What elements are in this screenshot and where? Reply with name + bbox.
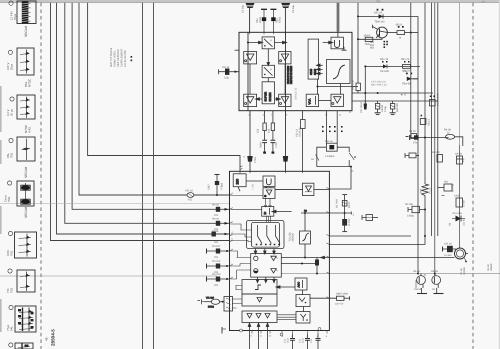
svg-text:VCA: VCA — [308, 99, 312, 105]
svg-text:R51: R51 — [444, 181, 449, 184]
block lowpass — [242, 294, 277, 306]
svg-text:ID: ID — [263, 212, 267, 215]
block deemphasis — [242, 280, 277, 295]
svg-text:FF5bB: FF5bB — [221, 182, 224, 190]
dashed board boundary left — [40, 3, 42, 349]
wire x365 drop — [364, 66, 366, 103]
svg-text:(+1.2): (+1.2) — [429, 187, 432, 194]
svg-text:8: 8 — [326, 335, 328, 338]
wire column x440 — [437, 3, 439, 236]
svg-text:16: 16 — [339, 114, 342, 117]
resistor R9b row155 — [405, 153, 419, 158]
wire pin6 to switch — [231, 241, 252, 242]
capacitor C520 + ground — [375, 101, 381, 115]
resistor R5124 — [397, 26, 405, 35]
diode D52 — [406, 73, 418, 81]
op-amp U2 second IC outline — [230, 171, 330, 330]
node j4 — [357, 15, 359, 17]
wire arrow to switch1 left — [248, 41, 263, 44]
node j1 — [247, 42, 249, 44]
wire switch1 to switch2 — [267, 49, 270, 66]
wire vca2 to switches — [266, 216, 270, 222]
svg-text:68k/+19B 2.2Ω: 68k/+19B 2.2Ω — [371, 84, 387, 87]
wire preset to lowpass — [237, 299, 243, 304]
svg-text:5539D5: 5539D5 — [292, 232, 295, 241]
svg-text:09 m3: 09 m3 — [212, 203, 220, 206]
amplifier A1 — [244, 52, 257, 64]
svg-text:Y51 R51B: Y51 R51B — [360, 102, 363, 113]
svg-text:B51: B51 — [370, 41, 375, 44]
node j12 — [301, 263, 303, 265]
amplifier A2 — [279, 52, 291, 64]
amplifier A5 — [331, 94, 343, 106]
crystal Q51 — [326, 143, 337, 151]
svg-text:5: 5 — [232, 263, 234, 266]
svg-text:560Ω: 560Ω — [208, 306, 214, 309]
wire gm5 bottom to VCA2 — [317, 79, 319, 94]
resistor R51 470k vertical — [356, 83, 360, 93]
svg-text:20 µs: 20 µs — [9, 109, 13, 116]
block VCA — [306, 94, 318, 106]
svg-text:B52: B52 — [370, 44, 375, 47]
wire column x419 — [417, 79, 419, 274]
svg-text:D05B9: D05B9 — [490, 263, 493, 271]
matrix block SUPER KOMBI — [262, 82, 274, 104]
svg-text:SECAM: SECAM — [24, 206, 28, 218]
svg-text:9: 9 — [251, 335, 253, 338]
wire column x434.8 — [434, 3, 436, 276]
svg-text:7: 7 — [232, 192, 234, 195]
svg-text:41-: 41- — [45, 336, 49, 341]
svg-text:ST P3B: ST P3B — [452, 183, 455, 192]
node j9 — [377, 92, 379, 94]
wire into U — [323, 41, 333, 44]
dots cluster q1 — [384, 41, 388, 48]
capacitor DR36 chain — [342, 195, 347, 232]
svg-text:20µs: 20µs — [9, 63, 13, 70]
svg-text:D51-4B5: D51-4B5 — [453, 212, 463, 215]
svg-text:47n: 47n — [413, 142, 418, 145]
wire deemph stub left — [236, 285, 242, 290]
svg-text:C51 46: C51 46 — [444, 243, 452, 246]
wire long audio out right — [281, 273, 500, 275]
svg-text:17: 17 — [325, 114, 328, 117]
wire pin2 to vca2 — [231, 208, 262, 210]
svg-text:◄ -5: ◄ -5 — [400, 93, 406, 97]
connector 7 VHS — [8, 231, 36, 258]
svg-text:4: 4 — [232, 231, 234, 234]
node j6 — [357, 38, 359, 40]
svg-text:47k/1: 47k/1 — [259, 16, 262, 23]
wire triple link — [277, 315, 296, 320]
resistor R912 zigzag — [422, 184, 429, 196]
wire faint mid left — [0, 203, 230, 205]
block 200 — [233, 174, 246, 191]
svg-text:4.43: 4.43 — [27, 127, 31, 133]
capacitor C501 (electrolytic top left) — [246, 3, 255, 32]
svg-text:L.-45!: L.-45! — [252, 184, 255, 190]
wire column x460 gray — [459, 3, 461, 145]
svg-text:C9-6B: C9-6B — [455, 153, 462, 156]
svg-text:M-PD2: M-PD2 — [348, 218, 351, 226]
wire outputs below (arrows up) — [248, 323, 251, 349]
block output triple — [242, 311, 277, 323]
label box2 pin numbers — [232, 192, 234, 279]
svg-text:75Ω: 75Ω — [9, 251, 13, 256]
capacitor C913a — [408, 206, 425, 212]
svg-text:451 470k: 451 470k — [352, 79, 355, 90]
svg-text:Y51: Y51 — [188, 199, 193, 202]
switch bank inner — [252, 222, 280, 247]
switch bank outer — [247, 221, 285, 249]
svg-text:1B: 1B — [432, 288, 435, 291]
pin ticks ic1 top — [250, 32, 286, 34]
capacitor C502 (electrolytic top right) — [281, 3, 290, 32]
wire mute left stubs — [237, 258, 251, 271]
wire mute outputs — [256, 277, 259, 283]
svg-text:R9 450: R9 450 — [432, 151, 440, 154]
wire stub from IC pin y86 — [352, 86, 358, 88]
wire ko down — [304, 213, 306, 231]
svg-text:Y51 A2: Y51 A2 — [185, 190, 194, 193]
node jint — [304, 257, 306, 259]
wire integrator2 down — [304, 244, 306, 258]
svg-text:TBA: TBA — [376, 0, 381, 3]
switch S2 box — [262, 65, 274, 77]
svg-text:P: P — [270, 68, 272, 71]
svg-text:200: 200 — [236, 179, 240, 185]
svg-text:29 m14: 29 m14 — [212, 260, 221, 263]
svg-text:D6: D6 — [449, 222, 452, 226]
wire A2 to A4 — [284, 64, 286, 94]
crystal network — [316, 112, 356, 190]
svg-text:11: 11 — [260, 335, 263, 338]
svg-text:75Ω: 75Ω — [7, 197, 11, 202]
svg-text:51B: 51B — [268, 128, 271, 133]
wire vertical net B — [153, 3, 155, 349]
svg-text:09-13b: 09-13b — [405, 203, 413, 206]
svg-text:47k/1: 47k/1 — [279, 16, 282, 23]
dashed board boundary right — [472, 3, 474, 349]
scan edge mark 1 — [0, 86, 2, 132]
transistor Q1 — [373, 25, 388, 38]
resistor R5123 — [403, 61, 411, 68]
capacitor C503 — [261, 9, 267, 32]
svg-text:75Ω: 75Ω — [9, 288, 13, 293]
node j7 — [364, 65, 366, 67]
wire out right y86 — [318, 86, 353, 88]
svg-text:22n: 22n — [214, 256, 219, 259]
svg-text:0.15µ: 0.15µ — [384, 105, 387, 112]
svg-text:TBA*4B: TBA*4B — [402, 83, 411, 86]
svg-text:TBA*140: TBA*140 — [375, 21, 386, 24]
capacitor C562 bottom — [316, 334, 321, 349]
wire thick double line to pin — [336, 3, 338, 32]
wire collector row — [387, 32, 397, 34]
svg-text:1N4148: 1N4148 — [380, 70, 389, 73]
svg-text:HEADPHONES: HEADPHONES — [290, 66, 293, 84]
wire agc chain — [302, 290, 304, 295]
pin ticks bottom edge — [240, 328, 328, 336]
svg-text:B53: B53 — [370, 47, 375, 50]
svg-text:D9-4B: D9-4B — [431, 270, 438, 273]
wire reroute row251 — [231, 251, 238, 258]
wire base row — [358, 38, 382, 39]
wire pin7 to demod — [231, 195, 264, 197]
wire bus line 4 — [65, 3, 230, 224]
svg-text:AGC: AGC — [298, 282, 301, 288]
svg-text:22n: 22n — [214, 241, 219, 244]
svg-text:09 m4: 09 m4 — [212, 217, 220, 220]
wire reroute row266 — [231, 264, 241, 267]
right scan edge — [499, 0, 500, 349]
top scan bar — [0, 0, 500, 3]
connector 1 PAL/NTSC — [8, 48, 34, 75]
node j8 — [364, 92, 366, 94]
resistor R5105 — [365, 37, 373, 41]
node j2 — [285, 42, 287, 44]
svg-text:45124: 45124 — [396, 23, 404, 26]
svg-text:½W: ½W — [420, 188, 423, 193]
capacitor C530 vertical — [315, 258, 319, 275]
capacitor C541 series — [283, 156, 288, 162]
connector SECAM 12-pin — [9, 1, 36, 24]
svg-text:M2 PM2: M2 PM2 — [336, 198, 339, 208]
wire bus line 1 — [88, 3, 240, 172]
svg-text:R090: R090 — [260, 142, 263, 148]
svg-text:4: 4 — [306, 335, 308, 338]
node j14 — [424, 235, 426, 237]
svg-text:22n: 22n — [214, 284, 219, 287]
diode D6 — [452, 216, 465, 222]
amplifier A4 — [279, 94, 291, 106]
wire ic pin x285 to box2 — [285, 111, 287, 172]
wire loop bottom — [317, 166, 351, 168]
capacitor C516 stub row266 — [207, 264, 230, 269]
svg-text:0.10: 0.10 — [302, 338, 305, 343]
svg-text:75Ω: 75Ω — [9, 153, 13, 158]
node j10 — [424, 137, 426, 139]
label box2 bottom pins — [251, 335, 328, 338]
wire x419 corner — [407, 16, 418, 78]
wire net x358 vertical — [357, 3, 359, 83]
capacitor C521 + ground — [390, 101, 396, 115]
node j11 — [350, 166, 352, 168]
switches S5 — [274, 225, 280, 245]
svg-text:1N41B: 1N41B — [414, 288, 422, 291]
wire crystal loop left — [317, 147, 327, 166]
wire column x426 — [424, 3, 426, 184]
svg-text:C3 10µ: C3 10µ — [292, 4, 295, 13]
wire corner down — [455, 137, 463, 146]
wire rail y243.8 — [329, 244, 425, 246]
svg-text:D51-13: D51-13 — [380, 58, 389, 61]
diode D5110 vertical — [420, 115, 426, 125]
svg-text:45128 4k18: 45128 4k18 — [437, 93, 440, 106]
block osc300 — [296, 312, 310, 324]
resistor R942 100k — [456, 198, 463, 207]
svg-text:45605: 45605 — [364, 34, 372, 37]
capacitor C561 bottom — [305, 334, 310, 349]
wire vref out right — [310, 297, 337, 299]
svg-text:0.10: 0.10 — [287, 338, 290, 343]
svg-text:22n+5V: 22n+5V — [335, 303, 344, 306]
wire rail right inside IC — [285, 32, 287, 110]
wire switch2 to matrix — [267, 78, 269, 82]
wire mute out row263 — [281, 263, 317, 265]
pin ticks right edge — [326, 188, 329, 299]
svg-text:S2: S2 — [304, 210, 308, 213]
wire row y93 — [352, 92, 434, 94]
wire switch outputs — [254, 249, 257, 255]
wire 200 to U2a — [246, 180, 263, 182]
capacitor stub below U — [342, 47, 347, 50]
svg-text:10: 10 — [281, 335, 284, 338]
svg-text:L51-B2: L51-B2 — [463, 218, 466, 226]
wire bus line 2 — [79, 3, 230, 195]
switch S1 box — [262, 37, 274, 49]
pin ticks box2 top — [240, 171, 303, 173]
wire to x411 — [405, 32, 419, 34]
wire mute out row257 — [281, 256, 454, 259]
svg-text:7µ 35V: 7µ 35V — [444, 254, 452, 257]
svg-text:NTSC: NTSC — [27, 78, 31, 87]
svg-text:3: 3 — [232, 248, 234, 251]
resistor R519 left of ic — [301, 112, 306, 172]
wire bus line 6 — [51, 3, 230, 241]
node jc913 — [424, 209, 426, 211]
pin ticks left edge — [230, 194, 233, 280]
diode D5113 — [382, 61, 388, 68]
capacitor C517 stub row279 — [207, 277, 230, 282]
block integrator2 — [300, 231, 311, 244]
transistor Q3 bottom — [432, 273, 444, 294]
wire VCA to A5 — [319, 99, 331, 101]
wire pin4 to switch — [231, 234, 252, 237]
wire rail y233.8 — [329, 235, 411, 237]
svg-text:C547: C547 — [208, 184, 211, 190]
wire bus line 3 — [72, 3, 229, 210]
svg-text:6: 6 — [232, 238, 234, 241]
svg-text:1400µ: 1400µ — [407, 215, 415, 218]
wire vertical net A — [142, 3, 144, 349]
svg-text:1k: 1k — [399, 37, 402, 40]
svg-text:101/B.2n: 101/B.2n — [299, 127, 302, 137]
svg-text:9: 9 — [286, 114, 288, 117]
svg-text:25 m13: 25 m13 — [212, 273, 221, 276]
wire column x432 — [431, 3, 433, 236]
wire bus line 5 — [57, 3, 230, 234]
svg-text:13: 13 — [269, 335, 272, 338]
pin stub ic left — [235, 49, 240, 51]
connector 5 PAL/SECAM — [9, 137, 35, 161]
svg-text:1dB: 1dB — [481, 0, 486, 3]
wire arrow to switch1 right — [275, 41, 287, 44]
block limiter — [303, 183, 314, 195]
capacitor D913b — [362, 215, 378, 221]
svg-text:C2 10µ: C2 10µ — [242, 4, 245, 13]
capacitor C5146 — [443, 246, 457, 252]
capacitor D516 input left — [219, 69, 240, 75]
wire demod to vca2 arrows — [264, 199, 267, 208]
jack J1 circle — [455, 248, 469, 262]
svg-text:L770: L770 — [275, 142, 278, 148]
svg-text:ST B9: ST B9 — [463, 200, 466, 207]
svg-text:C9-20: C9-20 — [409, 130, 416, 133]
scan edge mark 3 — [0, 206, 2, 234]
svg-text:SECAM: SECAM — [24, 25, 28, 37]
wire U to demod arrows — [265, 186, 268, 188]
capacitor C540 series — [247, 156, 252, 162]
svg-text:R6: R6 — [351, 170, 355, 173]
node jko — [304, 212, 306, 214]
svg-text:90/12: 90/12 — [348, 201, 351, 208]
capacitor C512 series bus3 — [216, 207, 229, 212]
block agc small — [295, 278, 307, 290]
block GM5 — [308, 39, 323, 79]
block U comparator — [331, 37, 343, 49]
resistor R512 below ic — [271, 111, 276, 154]
wire A1 to A3 — [249, 64, 251, 94]
wire long audio out left — [0, 275, 217, 277]
capacitor C920 — [410, 135, 419, 140]
switches S3 — [256, 225, 262, 245]
capacitor C514 series bus5 — [212, 232, 229, 237]
svg-text:CH 41/117/39: CH 41/117/39 — [124, 50, 127, 67]
wire ic pin x250 to box2 — [249, 111, 251, 172]
capacitor C560 bottom — [290, 334, 295, 349]
wire x426 to transistor — [424, 274, 426, 276]
pin stub top — [337, 32, 339, 38]
resistor R9 oval — [445, 134, 454, 139]
wire KO out — [329, 212, 351, 215]
node j3 — [317, 86, 319, 88]
label note block — [110, 48, 132, 67]
connector 10 partial — [9, 343, 33, 349]
resistor R941 mid — [438, 184, 452, 196]
svg-text:2: 2 — [291, 335, 293, 338]
op-amp U1 main IC outline — [239, 32, 352, 110]
block mute bank — [251, 254, 282, 278]
svg-text:07 56: 07 56 — [212, 230, 219, 233]
svg-text:3.3µ: 3.3µ — [224, 77, 229, 80]
capacitor C513 series bus4 — [216, 221, 229, 226]
wire koinz out — [301, 212, 329, 214]
svg-text:DEVICE 33: DEVICE 33 — [295, 87, 298, 100]
svg-text:C.D: C.D — [310, 339, 313, 343]
transistor Q2 bottom — [416, 273, 427, 294]
connector 4 NTSC 4.43 — [10, 95, 35, 119]
wire drop to box2 — [329, 167, 351, 189]
svg-text:D9-4B: D9-4B — [413, 270, 420, 273]
capacitor C523 electrolytic — [364, 101, 367, 110]
pin ticks bus1 drop — [240, 166, 243, 170]
block integrator — [327, 60, 351, 84]
wire row y66 — [365, 65, 420, 67]
svg-text:C?4B: C?4B — [254, 157, 257, 163]
svg-text:2: 2 — [232, 206, 234, 209]
wire row y101 rail — [352, 100, 438, 102]
svg-text:28504-5: 28504-5 — [51, 329, 56, 346]
svg-text:P: P — [270, 40, 272, 43]
svg-text:L51-20: L51-20 — [402, 70, 410, 73]
block vref — [296, 295, 310, 307]
resistor R511 below ic — [262, 111, 267, 154]
svg-text:GB07 MM2: GB07 MM2 — [336, 293, 349, 296]
capacitor C547 stub — [215, 175, 220, 197]
connector 9 dense — [9, 305, 36, 332]
block demod — [263, 187, 275, 199]
